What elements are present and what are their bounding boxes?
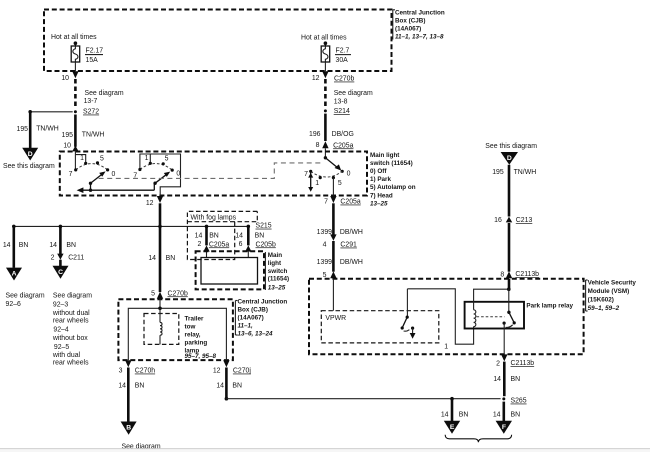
- svg-text:E: E: [450, 424, 455, 431]
- svg-text:rear wheels: rear wheels: [53, 318, 89, 325]
- fuse F2.7 30A: [321, 41, 351, 64]
- splice bus S215: [12, 223, 272, 230]
- svg-text:0) Off: 0) Off: [370, 168, 387, 175]
- park lamp relay contact: [477, 311, 516, 328]
- switch wafer 2: [133, 154, 180, 196]
- svg-text:C270b: C270b: [168, 290, 188, 297]
- svg-text:0: 0: [112, 171, 116, 178]
- svg-text:5) Autolamp on: 5) Autolamp on: [370, 184, 416, 191]
- splice bus S265: [226, 397, 526, 405]
- svg-text:S215: S215: [256, 223, 272, 230]
- svg-text:See diagram: See diagram: [85, 90, 124, 97]
- wire wafer link rail with left arrow: [77, 184, 155, 193]
- svg-text:12: 12: [146, 200, 154, 207]
- wire 14 BN to splice S265 bus: [216, 368, 242, 401]
- svg-text:195: 195: [17, 126, 29, 133]
- wire 14 BN to B: [118, 368, 144, 422]
- svg-text:C270h: C270h: [135, 368, 155, 375]
- svg-text:C270j: C270j: [233, 368, 251, 375]
- svg-text:C205a: C205a: [209, 241, 229, 248]
- svg-text:(14A067): (14A067): [238, 315, 264, 322]
- svg-text:switch: switch: [268, 268, 288, 275]
- svg-text:7: 7: [324, 198, 328, 205]
- svg-text:F2.7: F2.7: [336, 48, 350, 55]
- svg-text:12: 12: [312, 75, 320, 82]
- svg-text:59–1, 59–2: 59–1, 59–2: [588, 305, 620, 312]
- svg-text:13-7: 13-7: [84, 98, 98, 105]
- wire 195 TN/WH to switch pin 10: [62, 115, 105, 152]
- wire 14 BN from switch pin 12 to CJB pin 5 C270b: [148, 226, 188, 298]
- svg-text:See this diagram: See this diagram: [485, 143, 537, 150]
- svg-text:15A: 15A: [86, 57, 99, 64]
- CJB internal bus node: [128, 299, 226, 360]
- svg-text:Trailer: Trailer: [185, 315, 204, 322]
- switch wafer 1: [69, 152, 116, 192]
- svg-text:5: 5: [338, 180, 342, 187]
- svg-text:6: 6: [239, 241, 243, 248]
- wire 196 DB/OG to switch pin 8 C205a: [309, 114, 354, 158]
- svg-text:5: 5: [151, 291, 155, 298]
- svg-text:BN: BN: [66, 242, 76, 249]
- svg-text:tow: tow: [185, 323, 196, 330]
- svg-text:Box (CJB): Box (CJB): [395, 18, 425, 25]
- svg-text:3: 3: [119, 367, 123, 374]
- off-page connector D (right): [485, 143, 537, 165]
- svg-text:BN: BN: [511, 411, 521, 418]
- svg-text:14: 14: [148, 255, 156, 262]
- park lamp relay: [465, 302, 574, 329]
- svg-text:BN: BN: [511, 376, 521, 383]
- wire 14 BN to fog switch pin 2 C205a: [195, 226, 230, 257]
- wire TN/WH to VSM pin 8 C2113b: [500, 223, 539, 278]
- svg-text:relay,: relay,: [185, 331, 201, 338]
- svg-text:14: 14: [493, 376, 501, 383]
- svg-text:S214: S214: [334, 108, 350, 115]
- svg-text:14: 14: [3, 242, 11, 249]
- svg-text:2: 2: [51, 255, 55, 262]
- off-page connector D (left): [3, 148, 55, 170]
- off-page connector F: [496, 421, 512, 434]
- svg-text:13–6, 13–24: 13–6, 13–24: [238, 330, 274, 337]
- svg-text:C205a: C205a: [333, 142, 353, 149]
- svg-text:C2113b: C2113b: [515, 271, 539, 278]
- splice S214: [324, 90, 373, 115]
- svg-text:DB/WH: DB/WH: [340, 259, 363, 266]
- wire 1399 DB/WH with connector C291: [317, 229, 363, 279]
- svg-text:Hot at all times: Hot at all times: [301, 34, 347, 41]
- svg-text:12: 12: [213, 367, 221, 374]
- svg-text:2: 2: [496, 360, 500, 367]
- central junction box CJB (lower): [118, 299, 287, 360]
- svg-text:10: 10: [61, 75, 69, 82]
- svg-text:92–6: 92–6: [6, 301, 21, 308]
- svg-text:92–5: 92–5: [54, 344, 69, 351]
- svg-text:1) Park: 1) Park: [370, 176, 392, 183]
- fuse F2.17 15A: [71, 41, 103, 64]
- svg-text:Vehicle Security: Vehicle Security: [588, 279, 637, 286]
- svg-text:rear wheels: rear wheels: [53, 360, 89, 367]
- svg-text:2: 2: [198, 241, 202, 248]
- svg-text:C211: C211: [68, 255, 84, 262]
- svg-text:BN: BN: [135, 382, 145, 389]
- wire relay output to VSM pin 2 C2113b: [493, 323, 534, 396]
- svg-text:B: B: [126, 425, 131, 432]
- svg-text:0: 0: [347, 171, 351, 178]
- svg-text:D: D: [507, 155, 512, 162]
- svg-text:5: 5: [165, 156, 169, 163]
- svg-text:Central Junction: Central Junction: [238, 299, 288, 306]
- wire 14 BN branch F: [493, 402, 520, 421]
- svg-text:BN: BN: [255, 233, 265, 240]
- svg-text:14: 14: [49, 242, 57, 249]
- vehicle security module VSM box: [309, 279, 636, 355]
- svg-text:DB/WH: DB/WH: [340, 229, 363, 236]
- svg-text:196: 196: [309, 131, 321, 138]
- svg-text:light: light: [268, 260, 282, 267]
- svg-text:with dual: with dual: [52, 352, 81, 359]
- svg-text:A: A: [12, 271, 17, 278]
- svg-text:Park lamp relay: Park lamp relay: [526, 303, 573, 310]
- svg-text:VPWR: VPWR: [325, 315, 346, 322]
- off-page connector E: [444, 421, 460, 434]
- off-page connector B: [121, 422, 161, 451]
- svg-text:See this diagram: See this diagram: [3, 163, 55, 170]
- wire S272 branch to D: [17, 110, 73, 148]
- with fog lamps condition box: [187, 211, 257, 259]
- svg-text:C2113b: C2113b: [511, 360, 535, 367]
- svg-text:without box: without box: [52, 335, 88, 342]
- svg-text:1399: 1399: [317, 259, 332, 266]
- svg-text:8: 8: [500, 271, 504, 278]
- brace under E and F: [445, 435, 511, 442]
- svg-text:7: 7: [304, 171, 308, 178]
- svg-text:1: 1: [315, 180, 319, 187]
- wire 195 TN/WH from D: [492, 165, 536, 217]
- CJB pin 3 connector C270h: [119, 360, 156, 374]
- svg-text:TN/WH: TN/WH: [514, 169, 537, 176]
- splice S272: [74, 90, 124, 116]
- svg-text:14: 14: [235, 233, 243, 240]
- svg-text:11–1, 13–7, 13–8: 11–1, 13–7, 13–8: [395, 33, 444, 40]
- svg-text:F: F: [502, 424, 506, 431]
- switch pin 12 output wire: [146, 196, 163, 226]
- svg-text:(11654): (11654): [268, 276, 289, 283]
- svg-text:14: 14: [118, 382, 126, 389]
- wire 14 BN branch E: [441, 399, 469, 421]
- svg-text:BN: BN: [232, 382, 242, 389]
- svg-text:7) Head: 7) Head: [370, 192, 393, 199]
- svg-text:BN: BN: [459, 411, 469, 418]
- off-page connector A: [6, 268, 45, 309]
- svg-text:13–25: 13–25: [370, 200, 388, 207]
- svg-text:C: C: [58, 269, 63, 276]
- svg-text:parking: parking: [185, 339, 208, 346]
- wire 14 BN branch C with connector C211: [49, 226, 84, 266]
- wire 14 BN to fog switch pin 6 C205b: [235, 226, 276, 257]
- svg-text:13–25: 13–25: [268, 284, 286, 291]
- wire fuse F2.17 output pin 10: [61, 62, 78, 109]
- VPWR box: [321, 279, 439, 343]
- wire 14 BN branch A: [3, 226, 29, 267]
- svg-text:Box (CJB): Box (CJB): [238, 307, 268, 314]
- svg-text:92–3: 92–3: [53, 301, 68, 308]
- svg-text:Hot at all times: Hot at all times: [51, 34, 97, 41]
- svg-text:without dual: without dual: [52, 310, 90, 317]
- switch wafer 3: [304, 156, 350, 195]
- svg-text:C213: C213: [516, 217, 533, 224]
- svg-text:S272: S272: [83, 109, 99, 116]
- central junction box CJB (top): [44, 10, 445, 72]
- svg-text:switch (11654): switch (11654): [370, 160, 413, 167]
- CJB pin 12 connector C270j: [213, 360, 252, 374]
- VSM driver switch: [401, 289, 416, 339]
- svg-text:30A: 30A: [336, 57, 349, 64]
- svg-text:1: 1: [444, 344, 448, 351]
- wire VSM driver to relay coil: [407, 289, 473, 351]
- svg-text:C291: C291: [340, 242, 357, 249]
- main light switch 11654 box: [60, 152, 416, 208]
- svg-text:TN/WH: TN/WH: [82, 131, 105, 138]
- svg-text:TN/WH: TN/WH: [36, 126, 59, 133]
- svg-text:C270b: C270b: [334, 76, 354, 83]
- svg-text:13-8: 13-8: [334, 98, 348, 105]
- svg-text:D: D: [28, 151, 33, 158]
- svg-text:0: 0: [176, 170, 180, 177]
- svg-text:195: 195: [62, 132, 74, 139]
- svg-text:See diagram: See diagram: [53, 293, 92, 300]
- wire VSM pin 8 node: [507, 279, 511, 313]
- svg-text:See diagram: See diagram: [334, 90, 373, 97]
- svg-text:DB/OG: DB/OG: [332, 131, 354, 138]
- svg-text:F2.17: F2.17: [86, 48, 104, 55]
- svg-text:(15K602): (15K602): [588, 297, 614, 304]
- svg-text:92–4: 92–4: [53, 327, 68, 334]
- svg-text:Main: Main: [268, 252, 282, 259]
- svg-text:14: 14: [493, 411, 501, 418]
- main light switch (fog) box: [196, 251, 290, 291]
- svg-text:Central Junction: Central Junction: [395, 10, 445, 17]
- svg-text:1: 1: [145, 155, 149, 162]
- connector C270b pin 12 below fuse F2.7: [312, 62, 355, 108]
- off-page connector C: [52, 266, 92, 367]
- svg-text:See diagram: See diagram: [6, 293, 45, 300]
- svg-text:16: 16: [494, 217, 502, 224]
- mechanical link (ganged switch): [99, 163, 322, 179]
- svg-text:11–1,: 11–1,: [238, 322, 254, 329]
- hot at all times label (left): [51, 34, 97, 41]
- svg-text:BN: BN: [166, 255, 176, 262]
- svg-text:14: 14: [216, 382, 224, 389]
- svg-text:BN: BN: [209, 233, 219, 240]
- svg-text:7: 7: [69, 171, 73, 178]
- hot at all times label (right): [301, 34, 347, 41]
- svg-text:4: 4: [323, 242, 327, 249]
- switch pin 7 output connector C205a: [324, 196, 361, 235]
- svg-text:C205a: C205a: [340, 199, 360, 206]
- svg-text:10: 10: [63, 143, 71, 150]
- svg-text:195: 195: [492, 169, 504, 176]
- svg-text:14: 14: [195, 233, 203, 240]
- svg-text:Main light: Main light: [370, 152, 400, 159]
- page edge rule: [0, 449, 650, 452]
- svg-text:1: 1: [80, 155, 84, 162]
- svg-text:14: 14: [441, 411, 449, 418]
- svg-text:95–7, 95–8: 95–7, 95–8: [185, 353, 217, 360]
- svg-text:5: 5: [100, 156, 104, 163]
- svg-text:1399: 1399: [317, 229, 332, 236]
- svg-text:With fog lamps: With fog lamps: [191, 215, 237, 222]
- svg-text:8: 8: [316, 142, 320, 149]
- svg-text:Module (VSM): Module (VSM): [588, 288, 630, 295]
- connector C213 pin 16: [494, 217, 532, 225]
- park lamp relay coil: [474, 289, 509, 326]
- svg-text:S265: S265: [511, 398, 527, 405]
- svg-text:(14A067): (14A067): [395, 25, 421, 32]
- svg-text:BN: BN: [19, 242, 29, 249]
- svg-text:C205b: C205b: [256, 241, 276, 248]
- trailer tow relay, parking lamp (coil): [144, 308, 217, 360]
